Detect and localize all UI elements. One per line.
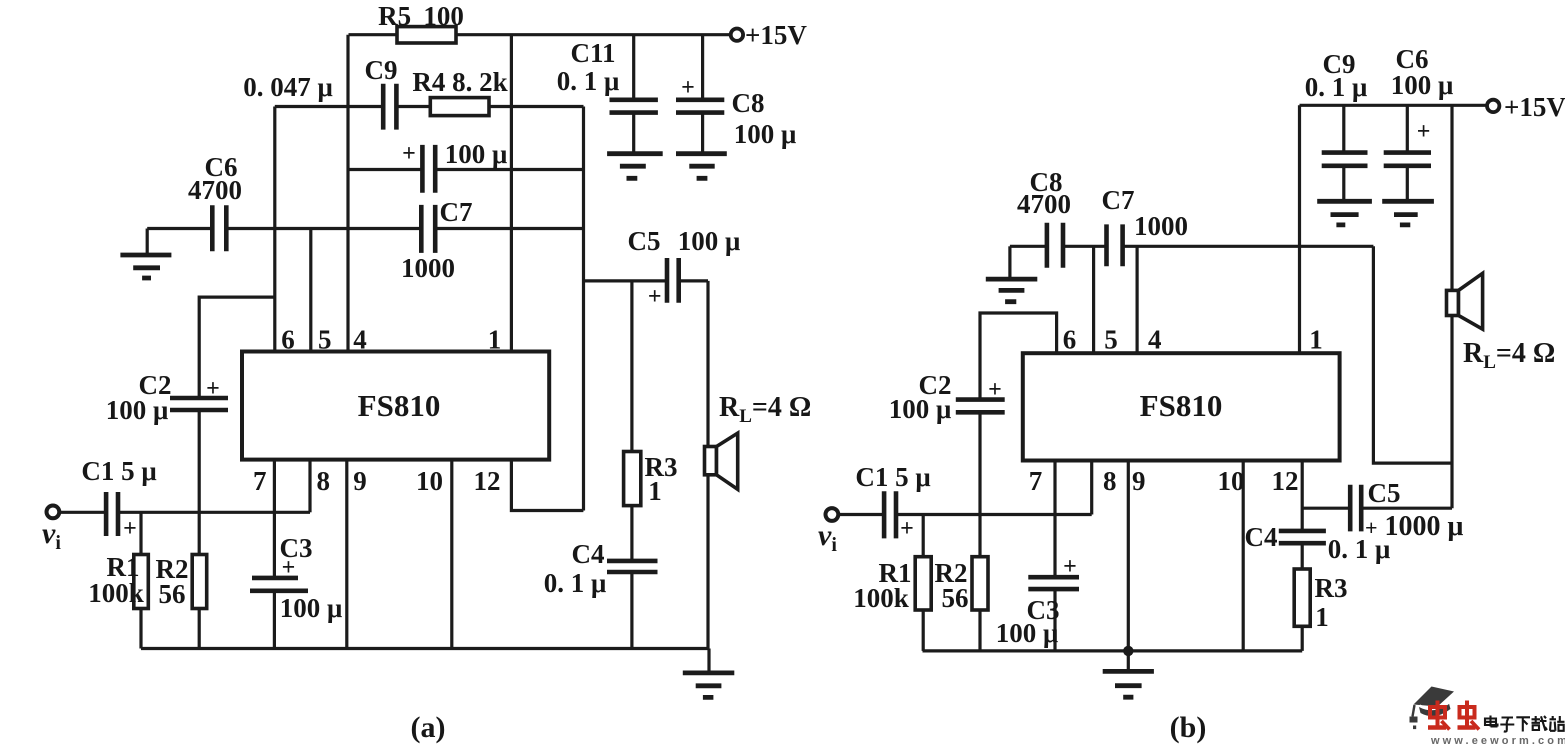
resistor R1 <box>134 555 149 609</box>
wire pin8 column (a) <box>308 460 311 513</box>
svg-text:4: 4 <box>1148 325 1162 355</box>
svg-text:4700: 4700 <box>188 175 242 205</box>
svg-text:56: 56 <box>159 579 186 609</box>
wire pin4 column (a) <box>346 35 349 352</box>
wire C8 to ground (b) <box>1008 246 1011 279</box>
wire pin12 column (b) <box>1301 461 1304 651</box>
wire C6 to ground (a) <box>146 229 149 256</box>
capacitor C5 <box>667 258 679 303</box>
svg-text:4: 4 <box>353 325 367 355</box>
wire pin6 column (a) <box>273 107 276 352</box>
wire pin4 column (b) <box>1135 246 1138 353</box>
wire node C9/R4 (a) <box>275 105 584 108</box>
watermark chong character 2 <box>1458 701 1480 730</box>
svg-text:1: 1 <box>488 325 502 355</box>
wire C4 to rail (a) <box>630 572 633 649</box>
wire bootstrap node (a) <box>348 168 584 171</box>
wire C2 top (a) <box>199 297 275 398</box>
svg-text:0. 1 μ: 0. 1 μ <box>557 66 620 96</box>
svg-text:C7: C7 <box>1102 185 1135 215</box>
wire pin1 column (b) <box>1298 105 1301 353</box>
svg-text:C9: C9 <box>365 55 398 85</box>
svg-text:+15V: +15V <box>1504 92 1565 122</box>
svg-text:100 μ: 100 μ <box>889 394 952 424</box>
wire C2 to R2 (a) <box>198 410 201 555</box>
ground main (b) <box>1103 671 1154 697</box>
svg-text:RL=4 Ω: RL=4 Ω <box>719 392 811 427</box>
capacitor C7 <box>421 205 435 253</box>
wire speaker column (b) <box>1450 105 1453 508</box>
svg-text:vi: vi <box>818 519 837 556</box>
svg-text:vi: vi <box>42 517 61 554</box>
wire pin5 column (a) <box>309 229 312 352</box>
svg-text:100 μ: 100 μ <box>106 395 169 425</box>
wire input (b) <box>838 513 1092 516</box>
svg-text:7: 7 <box>1029 466 1043 496</box>
svg-text:9: 9 <box>1132 466 1146 496</box>
capacitor C11 <box>610 35 658 154</box>
capacitor C2 <box>170 398 228 410</box>
terminal input vi (a) <box>47 506 60 519</box>
capacitor C6 (b) <box>1384 105 1431 201</box>
svg-text:C5: C5 <box>1368 478 1401 508</box>
wire pin7 column (a) <box>273 460 276 649</box>
capacitor C7 (b) <box>1107 224 1123 266</box>
svg-text:7: 7 <box>253 466 267 496</box>
wire node C8/C7 (b) <box>1010 245 1374 248</box>
resistor R1 (b) <box>915 557 931 610</box>
svg-text:10: 10 <box>416 466 443 496</box>
wire pin12 to feedback column (a) <box>511 460 583 511</box>
svg-text:RL=4 Ω: RL=4 Ω <box>1463 338 1555 373</box>
wire ground rail (a) <box>141 647 709 650</box>
svg-text:10: 10 <box>1218 466 1245 496</box>
svg-text:100 μ: 100 μ <box>1391 70 1454 100</box>
resistor R4 <box>430 98 489 116</box>
terminal input vi (b) <box>826 508 839 521</box>
svg-text:C1 5 μ: C1 5 μ <box>81 456 156 486</box>
speaker RL (b) <box>1447 273 1483 329</box>
svg-text:FS810: FS810 <box>1140 388 1223 423</box>
svg-text:9: 9 <box>353 466 367 496</box>
wire pin10 column (b) <box>1242 461 1245 651</box>
svg-text:5: 5 <box>318 325 332 355</box>
resistor R3 (b) <box>1294 569 1310 626</box>
watermark site name characters <box>1485 716 1565 732</box>
svg-text:100 μ: 100 μ <box>678 226 741 256</box>
terminal +15V (b) <box>1487 100 1499 112</box>
wire node C6/C7 (a) <box>147 227 583 230</box>
junction pin9/ground (b) <box>1123 646 1133 656</box>
svg-text:1: 1 <box>1309 325 1323 355</box>
watermark graduation cap <box>1410 687 1455 730</box>
wire ground stub (b) <box>1127 651 1130 672</box>
watermark chong character 1 <box>1428 701 1450 730</box>
svg-text:+15V: +15V <box>745 20 807 50</box>
ground C9 (b) <box>1317 201 1372 225</box>
svg-text:FS810: FS810 <box>358 388 441 423</box>
wire +15V rail (a) <box>349 33 732 36</box>
svg-text:+: + <box>681 75 695 101</box>
wire R1 top (b) <box>922 515 925 557</box>
capacitor C9 (b) <box>1322 105 1368 201</box>
wire +15V rail (b) <box>1300 104 1488 107</box>
wire R3 to C4 (a) <box>630 506 633 561</box>
capacitor C4 (b) <box>1279 531 1326 543</box>
wire pin1 column (a) <box>510 35 513 352</box>
op-amp U1 FS810 (a) <box>242 352 549 460</box>
svg-text:12: 12 <box>1272 466 1299 496</box>
svg-text:+: + <box>648 284 662 310</box>
ground C11 <box>607 154 663 179</box>
wire bootstrap column (b) <box>1373 246 1452 463</box>
svg-text:8: 8 <box>316 466 330 496</box>
svg-text:100 μ: 100 μ <box>280 593 343 623</box>
capacitor C2 (b) <box>956 377 1005 412</box>
wire pin8 column (b) <box>1090 461 1093 515</box>
svg-text:+ 1000 μ: + 1000 μ <box>1365 511 1464 542</box>
svg-text:6: 6 <box>1063 325 1077 355</box>
resistor R3 <box>624 452 641 506</box>
svg-text:12: 12 <box>474 466 501 496</box>
svg-text:100 μ: 100 μ <box>996 618 1059 648</box>
speaker RL (a) <box>705 433 738 489</box>
capacitor C8 (a) <box>676 35 724 154</box>
svg-text:+: + <box>1417 119 1431 145</box>
ground C8 (a) <box>676 154 727 179</box>
svg-text:0. 047 μ: 0. 047 μ <box>243 72 333 102</box>
wire pin9 column (a) <box>345 460 348 649</box>
svg-text:www.eeworm.com: www.eeworm.com <box>1430 735 1565 745</box>
resistor R2 (b) <box>972 557 988 610</box>
svg-text:1: 1 <box>1315 602 1329 632</box>
svg-text:6: 6 <box>281 325 295 355</box>
wire feedback column (a) <box>582 107 585 511</box>
ground C6 (a) <box>120 255 171 278</box>
svg-text:C4: C4 <box>572 539 605 569</box>
wire R2 to rail (a) <box>198 609 201 649</box>
wire C5 node (a) <box>584 279 709 282</box>
svg-text:+: + <box>1063 554 1077 580</box>
svg-text:C11: C11 <box>570 38 615 68</box>
wire pin5 column (b) <box>1092 246 1095 353</box>
wire R1 to rail (b) <box>922 610 925 651</box>
ground C8 (b) <box>986 279 1038 302</box>
svg-text:+: + <box>988 377 1002 403</box>
wire ground rail (b) <box>923 649 1303 652</box>
capacitor C1 <box>106 492 118 536</box>
wire C2 to R2 (b) <box>978 412 981 556</box>
wire R3 branch (a) <box>630 281 633 452</box>
wire C5 node (b) <box>1302 507 1452 510</box>
svg-text:R3: R3 <box>1315 573 1348 603</box>
svg-text:C4: C4 <box>1245 522 1278 552</box>
svg-text:0. 1 μ: 0. 1 μ <box>544 568 607 598</box>
wire pin10 column (a) <box>450 460 453 649</box>
resistor R2 <box>192 555 207 609</box>
terminal +15V (a) <box>731 29 743 41</box>
capacitor 100u bootstrap (a) <box>422 145 435 193</box>
svg-text:+: + <box>123 516 137 542</box>
svg-text:4700: 4700 <box>1017 189 1071 219</box>
svg-text:100k: 100k <box>88 578 144 608</box>
svg-text:+: + <box>900 516 914 542</box>
svg-text:C5: C5 <box>628 226 661 256</box>
wire pin9 column (b) <box>1127 461 1130 651</box>
svg-text:(b): (b) <box>1170 711 1207 744</box>
svg-text:C1 5 μ: C1 5 μ <box>855 462 930 492</box>
op-amp U2 FS810 (b) <box>1023 353 1340 460</box>
wire R2 to rail (b) <box>978 610 981 651</box>
capacitor C6 <box>212 205 226 251</box>
ground output (a) <box>707 649 710 673</box>
capacitor C5 (b) <box>1350 485 1361 532</box>
ground C6 (b) <box>1382 201 1434 225</box>
capacitor C3 (b) <box>1028 554 1079 589</box>
svg-text:5: 5 <box>1104 325 1118 355</box>
svg-text:C3: C3 <box>280 533 313 563</box>
svg-text:+: + <box>402 141 416 167</box>
svg-text:R4 8. 2k: R4 8. 2k <box>412 67 507 97</box>
capacitor C1 (b) <box>884 491 914 542</box>
capacitor C4 <box>607 561 658 572</box>
wire R1 to rail (a) <box>139 609 142 649</box>
svg-text:1: 1 <box>648 476 662 506</box>
ground symbol output (a) <box>683 673 735 698</box>
svg-text:1000: 1000 <box>401 253 455 283</box>
svg-text:100 μ: 100 μ <box>445 139 508 169</box>
capacitor C8 (b) <box>1047 223 1063 268</box>
capacitor C3 <box>250 578 308 591</box>
svg-text:100k: 100k <box>853 583 909 613</box>
resistor R5 <box>397 27 456 43</box>
svg-text:100 μ: 100 μ <box>734 119 797 149</box>
svg-text:8: 8 <box>1103 466 1117 496</box>
svg-text:1000: 1000 <box>1134 211 1188 241</box>
wire speaker branch (a) <box>706 281 709 649</box>
svg-text:C8: C8 <box>732 88 765 118</box>
svg-text:C7: C7 <box>440 197 473 227</box>
svg-text:0. 1 μ: 0. 1 μ <box>1305 72 1368 102</box>
wire input (a) <box>59 511 311 514</box>
svg-text:56: 56 <box>942 583 969 613</box>
svg-text:R5 100: R5 100 <box>378 1 464 31</box>
capacitor C9 <box>383 84 396 130</box>
svg-text:(a): (a) <box>411 711 446 744</box>
wire pin6 to C2 (b) <box>980 313 1057 400</box>
wire pin7 column (b) <box>1053 461 1056 651</box>
wire R1 top (a) <box>139 512 142 554</box>
svg-text:+: + <box>206 376 220 402</box>
